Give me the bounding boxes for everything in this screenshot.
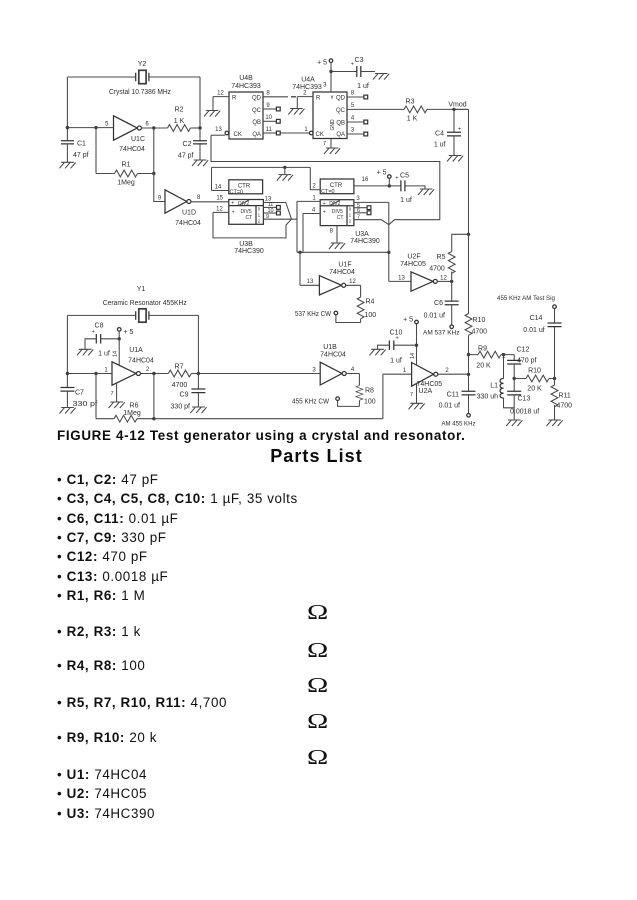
crystal Y2 [109, 61, 171, 96]
capacitor C7 [60, 388, 97, 408]
svg-text:16: 16 [362, 177, 369, 183]
svg-text:+: + [323, 210, 326, 216]
svg-text:12: 12 [349, 279, 356, 285]
pin 5 QC U4A [347, 108, 404, 110]
wire: R1 branch [96, 128, 154, 174]
svg-text:Ceramic Resonator 455KHz: Ceramic Resonator 455KHz [103, 300, 187, 307]
svg-text:74HC390: 74HC390 [350, 238, 380, 245]
svg-text:QC: QC [336, 108, 346, 114]
svg-text:CT=0: CT=0 [321, 189, 335, 195]
svg-text:Vmod: Vmod [448, 101, 466, 108]
wire: QA to U4A CK [280, 132, 309, 134]
+5 supply at U2A [403, 317, 418, 366]
wire: U3B feedback pin9 to pin12 [213, 212, 292, 238]
node: rail ground tap [283, 166, 286, 169]
svg-text:QA: QA [252, 132, 261, 138]
svg-text:8: 8 [197, 195, 201, 201]
svg-text:7: 7 [323, 141, 326, 147]
node: U1C out / R1 [152, 126, 155, 129]
ground under C7 [59, 408, 75, 414]
node: R7/C9 [197, 372, 200, 375]
node: R5 top on spine [467, 233, 470, 236]
terminal 455 KHz CW [292, 397, 359, 406]
capacitor C1 [61, 141, 89, 163]
svg-text:CK: CK [234, 132, 242, 138]
svg-text:74HC04: 74HC04 [320, 352, 346, 359]
svg-text:C2: C2 [183, 141, 192, 148]
svg-text:L1: L1 [490, 383, 498, 390]
wire: Vmod spine [454, 109, 469, 374]
pin 1 wire U3A [297, 200, 320, 202]
ground under C2 [192, 160, 208, 166]
caption [57, 428, 466, 443]
svg-text:5: 5 [105, 122, 109, 128]
pin 3 wire U3A [354, 202, 389, 224]
svg-text:20 K: 20 K [476, 363, 491, 370]
svg-text:1: 1 [403, 368, 407, 374]
capacitor C4 [434, 109, 461, 155]
capacitor C3 [351, 57, 375, 90]
capacitor C9 [171, 374, 206, 411]
svg-text:C14: C14 [530, 315, 543, 322]
svg-text:14: 14 [410, 353, 416, 359]
svg-text:4: 4 [312, 207, 316, 213]
pin 10 QB [263, 120, 277, 122]
capacitor C2 [178, 128, 207, 160]
capacitor C13 [507, 379, 539, 421]
+5 supply at U1A [113, 328, 134, 365]
svg-text:GND: GND [330, 119, 336, 131]
svg-text:330 pf: 330 pf [73, 401, 98, 408]
node: U2A output on spine [467, 373, 470, 376]
op-amp U2F 74HC05 [398, 254, 447, 292]
resistor R10 [465, 314, 487, 336]
terminal 455 KHz AM Test Sig [497, 295, 556, 309]
capacitor C5 [389, 173, 425, 205]
resistor R8 [356, 386, 376, 407]
pin 5 U3A [354, 207, 367, 209]
op-amp U2A 74HC05 [403, 363, 450, 396]
wire: U2F input [389, 280, 411, 282]
svg-text:9: 9 [266, 214, 269, 220]
svg-text:QD: QD [252, 96, 262, 102]
ground at C10 [370, 349, 386, 355]
svg-text:74HC04: 74HC04 [175, 220, 201, 227]
counter U3A 74HC390 body [320, 200, 380, 245]
svg-text:CK: CK [316, 132, 324, 138]
svg-text:470 pf: 470 pf [517, 357, 537, 364]
resistor R10 20K [514, 368, 554, 393]
svg-text:1 K: 1 K [174, 118, 185, 125]
pin 12 wire U3B [213, 211, 229, 213]
capacitor C11 [439, 374, 476, 413]
ground under C9 [190, 407, 206, 413]
op-amp U1B 74HC04 [312, 344, 355, 385]
svg-text:C5: C5 [400, 173, 409, 180]
svg-text:74HC390: 74HC390 [234, 248, 264, 255]
pin 8 QD stub [263, 96, 288, 98]
svg-text:R: R [316, 96, 321, 102]
svg-text:6: 6 [357, 208, 360, 214]
svg-text:C3: C3 [355, 57, 364, 64]
svg-text:1 uf: 1 uf [390, 358, 402, 365]
svg-text:1 K: 1 K [407, 116, 418, 123]
ground at U4A pin2 [288, 109, 304, 115]
capacitor C8 [85, 323, 119, 358]
svg-text:537 KHz CW: 537 KHz CW [295, 311, 331, 318]
op-amp U1F 74HC04 [307, 262, 357, 296]
pin 4 QB U4A [347, 121, 364, 123]
svg-text:R6: R6 [130, 403, 139, 410]
svg-text:7: 7 [357, 214, 360, 220]
node: U3A output merge [388, 225, 390, 282]
wire: U4B clock return loop [211, 135, 440, 225]
svg-text:R11: R11 [559, 393, 571, 400]
svg-text:C10: C10 [390, 330, 403, 337]
svg-text:U4B: U4B [239, 75, 253, 82]
pin 7 wire U3A [354, 220, 389, 225]
resonator Y1 [103, 286, 187, 322]
svg-text:R10: R10 [473, 317, 486, 324]
svg-text:8: 8 [266, 91, 270, 97]
svg-text:Y2: Y2 [138, 61, 147, 68]
pin 2 wire U4A [297, 97, 313, 109]
wire: U2F output [437, 280, 451, 282]
resistor R4 [357, 297, 376, 323]
node: R6 right [152, 417, 155, 420]
ground on rail [277, 175, 293, 181]
svg-text:C12: C12 [517, 347, 530, 354]
svg-text:0.01 uf: 0.01 uf [523, 327, 544, 334]
svg-text:CT: CT [246, 215, 253, 221]
counter U3B 74HC390 CTR header [229, 180, 263, 196]
svg-text:14: 14 [215, 184, 222, 190]
svg-text:100: 100 [365, 312, 377, 319]
wire: U1A output [140, 373, 168, 375]
svg-text:1: 1 [304, 127, 308, 133]
resistor R3 [404, 99, 469, 123]
svg-text:C7: C7 [75, 390, 84, 397]
svg-text:3: 3 [356, 196, 360, 202]
op-amp U1A 74HC04 [104, 347, 154, 385]
pin 13 wire U4B clock [211, 134, 225, 136]
wire: 455kHz to U1B [198, 373, 320, 375]
svg-text:13: 13 [398, 275, 405, 281]
wire: U1B output [346, 374, 359, 386]
pin 3 QA U4A [347, 133, 364, 135]
pin 7 GND wire U4A [330, 139, 332, 149]
wire: U1A input [67, 373, 112, 375]
svg-text:1Meg: 1Meg [117, 180, 135, 187]
svg-text:20 K: 20 K [527, 386, 542, 393]
svg-text:C13: C13 [518, 396, 531, 403]
svg-text:4700: 4700 [429, 266, 445, 273]
svg-text:R3: R3 [406, 99, 415, 106]
wire: U1F input [300, 252, 319, 285]
svg-text:CT: CT [337, 215, 344, 221]
svg-text:+ 5: + 5 [403, 317, 413, 324]
svg-text:13: 13 [215, 127, 222, 133]
pin 14 wire U3B [212, 190, 229, 192]
svg-text:74HC04: 74HC04 [119, 146, 145, 153]
svg-text:1 uf: 1 uf [98, 351, 110, 358]
ground at U4B pin12 [204, 111, 220, 117]
svg-text:R9: R9 [478, 346, 487, 353]
resistor R2 [168, 107, 201, 132]
svg-text:3: 3 [323, 83, 327, 89]
ground under R11 [547, 420, 563, 426]
pin 6 U3A [354, 212, 367, 214]
svg-text:74HC393: 74HC393 [231, 83, 261, 90]
pin 11 U3B [263, 206, 276, 208]
svg-text:U1C: U1C [131, 136, 145, 143]
svg-text:455 KHz AM Test Sig: 455 KHz AM Test Sig [497, 295, 555, 302]
svg-text:0.01 uf: 0.01 uf [424, 313, 445, 320]
svg-text:3: 3 [351, 128, 355, 134]
svg-text:Crystal 10.7386 MHz: Crystal 10.7386 MHz [109, 89, 171, 96]
svg-text:2: 2 [312, 184, 316, 190]
svg-text:2: 2 [146, 367, 150, 373]
svg-text:U1B: U1B [323, 344, 337, 351]
svg-text:+: + [458, 127, 461, 133]
svg-text:1 uf: 1 uf [400, 197, 412, 204]
wire: U1C output [141, 127, 167, 129]
pin 9 wire U3B [263, 218, 291, 220]
node: U1A input [66, 372, 69, 375]
svg-text:Y1: Y1 [137, 286, 146, 293]
svg-text:C11: C11 [447, 392, 459, 399]
svg-text:1 uf: 1 uf [357, 83, 369, 90]
svg-text:2: 2 [445, 368, 449, 374]
resistor R9 [469, 346, 515, 370]
svg-text:U1D: U1D [182, 210, 196, 217]
svg-text:R7: R7 [175, 364, 184, 371]
pin 2 wire U3A [310, 189, 320, 191]
svg-text:CTR: CTR [330, 183, 343, 189]
ground after C3 [373, 74, 389, 80]
wire: reset/ground rail [212, 167, 311, 190]
wire: 537kHz distribution [297, 251, 389, 253]
svg-text:U1F: U1F [338, 262, 351, 269]
ground under C13 [506, 420, 522, 426]
pin 12 wire U4B [213, 97, 229, 111]
svg-text:C6: C6 [434, 300, 443, 307]
svg-text:R10: R10 [528, 368, 541, 375]
svg-text:1 uf: 1 uf [434, 142, 446, 149]
counter U3B 74HC390 body [229, 200, 264, 256]
svg-text:+: + [231, 201, 234, 207]
svg-text:R4: R4 [366, 299, 375, 306]
svg-text:+: + [232, 209, 235, 215]
svg-text:11: 11 [266, 127, 273, 133]
svg-text:DIV2: DIV2 [238, 201, 249, 207]
svg-text:QA: QA [336, 132, 345, 138]
ground at U1A pin7 [109, 402, 125, 408]
svg-text:+: + [351, 62, 354, 68]
svg-text:1: 1 [104, 367, 108, 373]
svg-text:4700: 4700 [472, 329, 488, 336]
node: C1 / input junction [66, 126, 69, 129]
svg-text:12: 12 [217, 90, 224, 96]
svg-text:13: 13 [307, 279, 314, 285]
svg-text:DIV2: DIV2 [329, 201, 340, 207]
svg-text:+: + [502, 355, 505, 361]
resistor R7 [168, 364, 198, 389]
pin 4 wire U3A [303, 214, 320, 253]
pin 7 wire U2A [416, 384, 418, 404]
resistor R5 [429, 234, 468, 281]
svg-text:CT=0: CT=0 [230, 189, 244, 195]
terminal AM 537 KHz [423, 325, 460, 336]
inductor L1 [477, 355, 515, 408]
svg-text:74HC05: 74HC05 [417, 381, 443, 388]
svg-text:6: 6 [145, 122, 149, 128]
counter U3A 74HC390 CTR header [320, 179, 354, 195]
pin 9 QC [263, 108, 277, 110]
node A: L1/C12 junction [502, 353, 505, 356]
svg-text:+: + [92, 329, 95, 335]
svg-text:QC: QC [252, 108, 262, 114]
svg-text:10: 10 [265, 115, 272, 121]
svg-text:+ 5: + 5 [317, 60, 327, 67]
node C: R10/R11/C14 [553, 377, 556, 380]
svg-text:U2A: U2A [419, 388, 433, 395]
node Vmod [452, 108, 455, 111]
heading Parts List [0, 446, 635, 467]
capacitor C12 [502, 347, 536, 379]
svg-text:+ 5: + 5 [377, 170, 387, 177]
svg-text:C4: C4 [435, 131, 444, 138]
terminal AM 455 KHz [442, 414, 476, 428]
svg-text:7: 7 [110, 391, 113, 397]
counter U4A 74HC393 [292, 77, 347, 139]
+5 supply at U3A [377, 170, 392, 188]
wire: to U1D [154, 174, 165, 202]
svg-text:∨: ∨ [330, 95, 334, 101]
node: R2/C2 [198, 126, 201, 129]
svg-text:U1A: U1A [129, 347, 143, 354]
capacitor C6 [424, 281, 459, 325]
capacitor C14 [523, 309, 561, 379]
svg-text:100: 100 [364, 399, 376, 406]
resistor R6 [96, 374, 154, 423]
pin 8 QD U4A [347, 96, 364, 98]
svg-text:+: + [323, 201, 326, 207]
svg-text:R: R [232, 96, 237, 102]
wire: bottom run to U2A [154, 374, 412, 419]
wire: U1D output to U3B [191, 201, 229, 203]
op-amp U1D 74HC04 [158, 190, 201, 227]
svg-text:QB: QB [336, 120, 345, 126]
svg-text:2: 2 [303, 90, 307, 96]
ground at U4A pin7 [324, 148, 340, 154]
svg-text:U2F: U2F [407, 254, 420, 261]
svg-text:AM 455 KHz: AM 455 KHz [442, 421, 476, 428]
svg-text:U3B: U3B [239, 241, 253, 248]
pin 13 wire U3B [263, 203, 291, 220]
ground at U3A pin8 [329, 243, 345, 249]
svg-text:R2: R2 [175, 107, 184, 114]
wire: U1F output [346, 285, 361, 297]
svg-text:QB: QB [252, 120, 261, 126]
counter U4B 74HC393 [225, 75, 263, 139]
wire: U3B merge to U3A pin1 [292, 201, 298, 219]
+5 supply at U4A [317, 59, 357, 92]
svg-text:U4A: U4A [301, 77, 315, 84]
svg-text:9: 9 [266, 103, 270, 109]
node B: C12/C13/R10 [513, 377, 516, 380]
svg-text:7: 7 [410, 392, 413, 398]
svg-text:R1: R1 [122, 162, 131, 169]
svg-text:4: 4 [351, 116, 355, 122]
svg-text:14: 14 [113, 351, 119, 357]
svg-text:455 KHz CW: 455 KHz CW [292, 399, 329, 406]
svg-text:8: 8 [351, 91, 355, 97]
svg-text:8: 8 [330, 229, 334, 235]
wire: U2A output [438, 373, 469, 375]
resistor R1 [115, 162, 138, 187]
pin 10 U3B [263, 212, 276, 214]
svg-text:+ 5: + 5 [124, 329, 134, 336]
terminal 537 KHz CW [295, 311, 361, 323]
pin 11 QA [263, 132, 277, 134]
svg-text:R5: R5 [437, 254, 446, 261]
wire: Y2 feedback top rail [67, 77, 200, 141]
svg-text:0.01 uf: 0.01 uf [439, 403, 460, 410]
ground under C4 [447, 156, 463, 162]
svg-text:C1: C1 [77, 141, 86, 148]
svg-text:15: 15 [216, 196, 223, 202]
svg-text:4700: 4700 [557, 403, 573, 410]
svg-text:4: 4 [351, 367, 355, 373]
ground at C8 [77, 349, 93, 355]
wire: U1C input [67, 127, 113, 129]
ground under C1 [59, 162, 75, 168]
svg-text:12: 12 [440, 275, 447, 281]
pin 16 Vcc wire U3A [354, 185, 389, 187]
svg-text:47 pf: 47 pf [178, 153, 194, 160]
svg-text:12: 12 [216, 206, 223, 212]
svg-text:9: 9 [158, 195, 162, 201]
node: R9 tap [467, 353, 470, 356]
svg-text:74HC05: 74HC05 [400, 261, 426, 268]
svg-text:1: 1 [312, 195, 316, 201]
svg-text:4700: 4700 [172, 382, 188, 389]
ground after C5 [418, 189, 434, 195]
svg-text:330 uh: 330 uh [477, 393, 499, 400]
pin 7 wire U1A [116, 383, 118, 402]
svg-text:3: 3 [312, 367, 316, 373]
svg-text:47 pf: 47 pf [73, 152, 89, 159]
svg-text:74HC04: 74HC04 [128, 358, 154, 365]
svg-text:C9: C9 [180, 392, 189, 399]
svg-text:74HC393: 74HC393 [292, 84, 322, 91]
svg-text:+: + [395, 176, 398, 182]
svg-text:330 pf: 330 pf [171, 404, 191, 411]
pin 8 GND wire U3A [336, 226, 338, 243]
op-amp U1C 74HC04 [105, 116, 149, 153]
svg-text:5: 5 [351, 103, 355, 109]
resistor R11 [551, 379, 572, 421]
wire: Y1 feedback rail [67, 315, 198, 387]
svg-text:74HC04: 74HC04 [329, 269, 355, 276]
ground at U2A pin7 [409, 403, 425, 409]
capacitor C10 [378, 330, 417, 365]
svg-text:C8: C8 [95, 323, 104, 330]
svg-text:QD: QD [336, 96, 346, 102]
svg-text:R8: R8 [365, 388, 374, 395]
wire: U3A pin1 drop [296, 201, 298, 252]
